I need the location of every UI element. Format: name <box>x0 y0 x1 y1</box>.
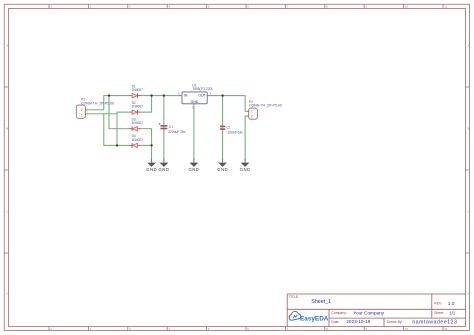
svg-text:B: B <box>6 127 8 131</box>
svg-text:1N4007: 1N4007 <box>132 88 143 92</box>
svg-text:C2: C2 <box>226 126 230 130</box>
svg-text:11: 11 <box>444 5 447 9</box>
svg-text:7805(TO-220): 7805(TO-220) <box>192 87 212 91</box>
svg-text:REV:: REV: <box>434 301 442 305</box>
svg-text:2200uF 25v: 2200uF 25v <box>168 130 185 134</box>
svg-text:GND: GND <box>191 100 199 104</box>
svg-text:1N4007: 1N4007 <box>132 105 143 109</box>
svg-text:Company:: Company: <box>331 311 347 315</box>
svg-text:B: B <box>468 127 470 131</box>
svg-text:D: D <box>468 292 470 296</box>
svg-text:8: 8 <box>326 5 328 9</box>
svg-text:1N4007: 1N4007 <box>132 138 143 142</box>
svg-text:GND: GND <box>158 167 169 172</box>
svg-text:2: 2 <box>90 5 92 9</box>
svg-text:EasyEDA: EasyEDA <box>300 315 329 322</box>
svg-text:1/1: 1/1 <box>449 311 455 316</box>
svg-text:10: 10 <box>405 5 409 9</box>
svg-text:1: 1 <box>81 113 83 117</box>
svg-text:1N4007: 1N4007 <box>132 121 143 125</box>
svg-text:1.0: 1.0 <box>448 301 455 307</box>
svg-text:Sheet_1: Sheet_1 <box>311 299 331 305</box>
svg-text:7: 7 <box>287 5 289 9</box>
svg-text:C1: C1 <box>169 125 173 129</box>
svg-text:A: A <box>6 44 8 48</box>
svg-text:10: 10 <box>405 327 409 331</box>
svg-text:100nF 63v: 100nF 63v <box>228 131 244 135</box>
svg-text:3: 3 <box>209 91 211 95</box>
svg-text:IN: IN <box>184 94 188 98</box>
svg-text:A: A <box>468 44 470 48</box>
svg-text:2023-10-19: 2023-10-19 <box>346 319 370 324</box>
svg-text:11: 11 <box>444 327 447 331</box>
svg-text:C: C <box>468 210 470 214</box>
svg-text:Date:: Date: <box>331 320 339 324</box>
svg-text:Drawn By:: Drawn By: <box>387 320 403 324</box>
svg-text:3: 3 <box>129 5 131 9</box>
svg-text:OUT: OUT <box>198 94 206 98</box>
svg-text:Your Company: Your Company <box>353 311 384 316</box>
svg-text:C: C <box>6 210 8 214</box>
svg-text:CONN-TH_2P-P5.00: CONN-TH_2P-P5.00 <box>249 103 282 107</box>
svg-text:GND: GND <box>188 167 199 172</box>
svg-text:1: 1 <box>251 110 253 114</box>
svg-text:2: 2 <box>81 108 83 112</box>
svg-text:namtawadee123: namtawadee123 <box>412 319 457 325</box>
svg-text:D: D <box>6 292 8 296</box>
svg-text:6: 6 <box>247 5 249 9</box>
svg-text:2: 2 <box>192 106 194 110</box>
svg-text:TITLE:: TITLE: <box>289 295 299 299</box>
svg-text:GND: GND <box>146 167 157 172</box>
svg-text:CONN-TH_2P-P5.00: CONN-TH_2P-P5.00 <box>81 101 114 105</box>
svg-text:GND: GND <box>217 167 228 172</box>
svg-text:1: 1 <box>50 5 52 9</box>
svg-text:5: 5 <box>208 5 210 9</box>
svg-text:2: 2 <box>251 114 253 118</box>
svg-text:1: 1 <box>178 92 180 96</box>
svg-text:Sheet:: Sheet: <box>434 311 444 315</box>
svg-text:9: 9 <box>366 5 368 9</box>
svg-text:4: 4 <box>169 5 171 9</box>
svg-text:GND: GND <box>240 167 251 172</box>
